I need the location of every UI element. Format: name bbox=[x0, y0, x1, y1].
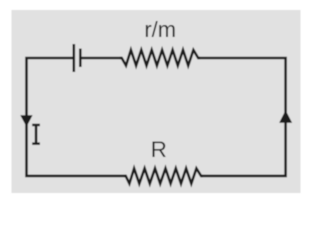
resistor R (zigzag, bottom) bbox=[124, 168, 202, 183]
battery cell long plate bbox=[73, 44, 76, 72]
wire right loop (bottom-right, right side, top-right) bbox=[198, 58, 285, 176]
label I (current) bbox=[32, 124, 40, 145]
svg-text:R: R bbox=[151, 137, 167, 162]
resistor r/m (zigzag, top) bbox=[120, 50, 200, 66]
wire battery to resistor r/m bbox=[80, 57, 121, 60]
svg-text:r/m: r/m bbox=[144, 17, 176, 42]
current arrow up (right side) bbox=[279, 110, 292, 122]
current arrow down (left side) bbox=[20, 115, 32, 127]
wire left loop (top-left, left side, bottom-left) bbox=[27, 58, 126, 176]
battery cell short plate bbox=[79, 49, 82, 67]
